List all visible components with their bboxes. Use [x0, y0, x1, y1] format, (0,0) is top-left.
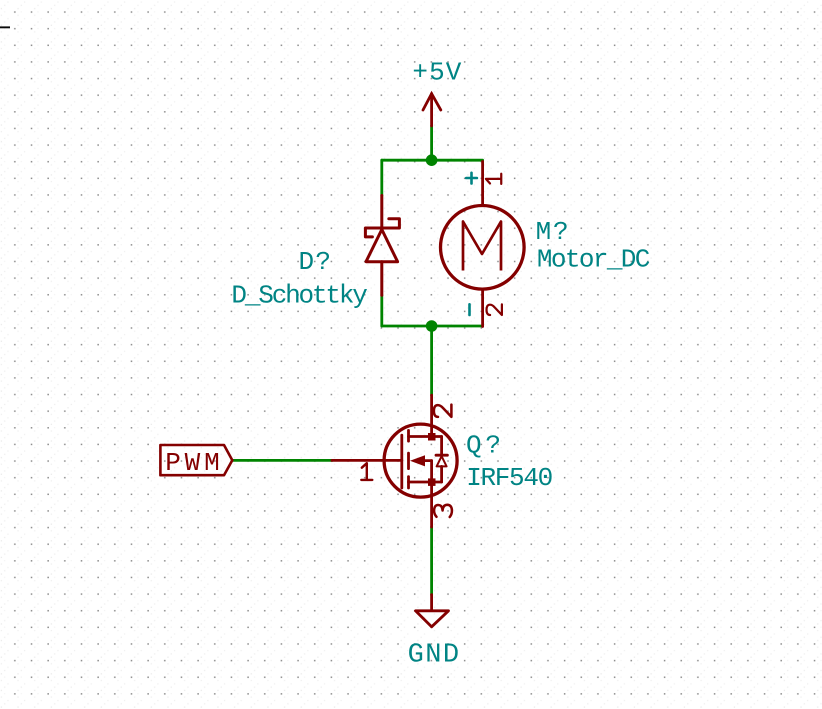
svg-text:IRF540: IRF540	[466, 463, 553, 493]
svg-text:D?: D?	[299, 247, 332, 277]
svg-text:Motor_DC: Motor_DC	[537, 245, 651, 275]
svg-text:PWM: PWM	[165, 448, 220, 478]
svg-text:+5V: +5V	[412, 58, 461, 88]
svg-text:D_Schottky: D_Schottky	[231, 280, 368, 310]
svg-text:GND: GND	[408, 641, 460, 671]
svg-text:M?: M?	[536, 217, 569, 247]
